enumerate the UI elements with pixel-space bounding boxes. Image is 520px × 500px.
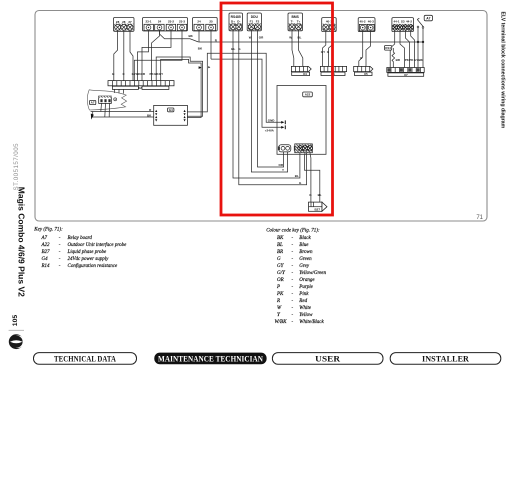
wire 25 R to +24VA (211, 59, 283, 127)
svg-text:Colour code key (Fig. 71):: Colour code key (Fig. 71): (266, 229, 320, 234)
relay board label A7 (424, 15, 432, 20)
strip to harness stubs (114, 89, 116, 93)
wire 44-1 (390, 30, 395, 68)
wire 28 block t2 (123, 30, 125, 80)
svg-text:G4: G4 (169, 108, 173, 112)
svg-text:R14: R14 (385, 46, 391, 50)
relay connector leads (100, 103, 103, 111)
wire 40-2 (359, 31, 363, 67)
svg-text:28: 28 (116, 20, 120, 24)
diagram frame (35, 11, 487, 222)
relay board label A7 (90, 100, 96, 104)
GND arrow into A22 (281, 121, 284, 124)
svg-text:Magis Combo 4/6/9 Plus V2: Magis Combo 4/6/9 Plus V2 (17, 187, 27, 297)
svg-text:BMS: BMS (292, 15, 300, 19)
wire A22 to B27 G (310, 153, 311, 202)
terminal block 28/28/27 (114, 18, 135, 32)
supply wire BK to G4 (93, 112, 154, 118)
svg-text:Outdoor Unit interface probe: Outdoor Unit interface probe (68, 243, 128, 248)
wire 24b (160, 30, 199, 42)
outdoor unit interface A22 (277, 86, 326, 155)
svg-text:INSTALLER: INSTALLER (422, 355, 470, 364)
arrow marker on strip-G4 wire (199, 66, 202, 69)
svg-text:25: 25 (209, 20, 213, 24)
svg-text:S3: S3 (401, 19, 405, 23)
supply wire R to G4 (91, 111, 154, 113)
svg-text:24Vdc power supply: 24Vdc power supply (68, 257, 110, 262)
relay connector (99, 96, 112, 103)
svg-text:GY: GY (414, 58, 418, 62)
terminal block RS485 (229, 13, 243, 31)
wire RS485 D- G (239, 30, 307, 185)
svg-text:BL: BL (298, 35, 302, 39)
A22 main connector (294, 144, 313, 153)
svg-text:23-1: 23-1 (145, 20, 151, 24)
svg-text:44-1: 44-1 (393, 19, 399, 23)
svg-text:23-3: 23-3 (179, 20, 185, 24)
wire 27 block t3 (130, 30, 133, 80)
svg-text:DDU: DDU (251, 15, 259, 19)
svg-text:23-2: 23-2 (168, 20, 174, 24)
svg-text:Blue: Blue (299, 243, 309, 248)
svg-text:Grey: Grey (299, 264, 310, 269)
svg-text:44-2: 44-2 (406, 19, 412, 23)
svg-text:MAINTENANCE TECHNICIAN: MAINTENANCE TECHNICIAN (158, 355, 263, 364)
svg-text:PK: PK (276, 292, 284, 297)
R14 resistor (385, 46, 395, 68)
svg-text:Orange: Orange (299, 278, 315, 283)
separator line above logo (9, 329, 24, 331)
junction dots (417, 41, 419, 43)
wire 40-3 (366, 31, 371, 67)
svg-text:D-: D- (237, 20, 240, 24)
svg-text:White/Black: White/Black (299, 320, 324, 325)
wire A22 to B27 BL (305, 153, 320, 202)
svg-text:BL: BL (318, 193, 322, 197)
svg-text:ELV terminal block connections: ELV terminal block connections wiring di… (500, 12, 506, 129)
arrow marker on GND riser (208, 66, 210, 68)
svg-text:P: P (276, 285, 280, 290)
svg-text:White: White (299, 306, 311, 311)
arrow symbol (91, 114, 94, 120)
svg-text:Red: Red (298, 299, 307, 304)
terminal block BMS (288, 13, 303, 31)
24Vdc power supply G4 (154, 105, 188, 125)
terminal block 44-1/S3/44-2 (392, 18, 414, 32)
+24VA arrow into A22 (281, 126, 284, 129)
brand logo (9, 334, 24, 349)
liquid phase probe B27 (309, 202, 328, 211)
svg-text:R: R (276, 299, 280, 304)
wire BMS T- W (292, 30, 294, 67)
svg-text:F2: F2 (256, 20, 260, 24)
A22 small connector (278, 145, 291, 152)
terminal block 23-1/24/23-2/23-3 (143, 18, 188, 32)
colour code rows (275, 236, 327, 325)
svg-text:Yellow/Green: Yellow/Green (299, 271, 326, 276)
svg-text:Purple: Purple (298, 285, 313, 290)
tab installer (390, 353, 501, 365)
svg-text:Key (Fig. 71):: Key (Fig. 71): (33, 227, 63, 232)
svg-text:28: 28 (122, 20, 126, 24)
svg-text:B27: B27 (315, 207, 321, 211)
terminal block 40-1 (322, 18, 337, 32)
svg-text:B27: B27 (42, 250, 51, 255)
svg-text:Relay board: Relay board (67, 236, 93, 241)
wire BMS T+ BL (299, 30, 303, 67)
connector strip X6 (320, 66, 346, 76)
svg-text:BL: BL (277, 243, 283, 248)
svg-text:BK: BK (277, 236, 284, 241)
svg-text:USER: USER (315, 355, 341, 364)
svg-text:A7: A7 (91, 101, 95, 105)
svg-text:ST.005157/005: ST.005157/005 (13, 143, 20, 191)
svg-text:40-3: 40-3 (368, 19, 374, 23)
svg-text:71: 71 (476, 215, 483, 221)
svg-text:W: W (249, 35, 252, 39)
wire 25 to +24VA rail (210, 30, 212, 59)
svg-text:A7: A7 (41, 236, 48, 241)
relay contact switch (417, 18, 424, 31)
svg-text:Configuration resistance: Configuration resistance (68, 264, 118, 269)
svg-text:D+: D+ (231, 20, 235, 24)
svg-text:GND: GND (268, 119, 276, 123)
connector strip X2 (108, 81, 174, 91)
svg-text:24: 24 (158, 20, 162, 24)
wire 24a (152, 30, 160, 81)
svg-text:GY: GY (321, 50, 325, 54)
svg-text:105: 105 (12, 315, 19, 327)
svg-text:G4: G4 (42, 257, 49, 262)
svg-text:T+: T+ (297, 20, 301, 24)
connector strip X7 (387, 68, 424, 77)
wire strip to G4 b (161, 59, 201, 117)
svg-text:W/BK: W/BK (275, 320, 288, 325)
svg-text:TECHNICAL DATA: TECHNICAL DATA (54, 355, 116, 364)
svg-text:X7: X7 (404, 73, 408, 77)
wire 40-1 right to strip (329, 30, 333, 66)
svg-text:Pink: Pink (298, 292, 309, 297)
svg-text:Liquid phase probe: Liquid phase probe (67, 250, 107, 255)
svg-text:Yellow: Yellow (299, 313, 313, 318)
wire bus branch a (417, 42, 419, 68)
svg-text:OR: OR (277, 278, 284, 283)
screw mark (114, 98, 117, 101)
harness outline (87, 90, 126, 110)
wire 44-S3a (400, 30, 405, 68)
svg-text:X2: X2 (138, 86, 142, 90)
svg-text:RS485: RS485 (231, 15, 241, 19)
svg-text:X5: X5 (364, 72, 368, 76)
svg-text:A22: A22 (41, 243, 51, 248)
wire bus branch b (422, 42, 424, 68)
wire 23-1 (138, 30, 149, 81)
connector strip X5 (354, 66, 373, 76)
svg-text:A22: A22 (305, 93, 311, 97)
G4 output wire BK to GND (187, 53, 282, 122)
wire 23-3 (134, 30, 182, 81)
tab technical data (34, 353, 137, 365)
red highlight rectangle (221, 3, 333, 215)
svg-text:T-: T- (291, 20, 294, 24)
svg-text:BR: BR (277, 250, 283, 255)
svg-text:R14: R14 (41, 264, 51, 269)
svg-text:Y: Y (282, 168, 284, 172)
wire 28 block t1 (114, 30, 118, 80)
svg-text:W: W (289, 35, 292, 39)
tab user (272, 353, 383, 365)
wire strip to G4 a (156, 57, 202, 116)
svg-text:27: 27 (128, 20, 132, 24)
svg-text:BL: BL (231, 47, 235, 51)
wire 44-S3b (405, 30, 409, 68)
tab maintenance technician (154, 353, 266, 365)
key rows (41, 236, 128, 269)
wire DDU F1 W (251, 30, 287, 172)
svg-text:Black: Black (299, 236, 311, 241)
terminal block DDU (247, 13, 261, 31)
svg-text:G/Y: G/Y (277, 271, 286, 276)
wire 44-2 (411, 30, 415, 68)
svg-text:Brown: Brown (299, 250, 313, 255)
terminal block 24/25 (193, 18, 218, 32)
terminal block 40-2/40-3 (358, 18, 375, 32)
svg-text:F1: F1 (250, 20, 254, 24)
svg-text:24: 24 (197, 20, 201, 24)
svg-text:BL: BL (295, 174, 299, 178)
svg-text:A7: A7 (426, 17, 430, 21)
svg-text:40-2: 40-2 (359, 19, 365, 23)
wire RS485 D+ BL (233, 30, 300, 178)
svg-text:+24VA: +24VA (265, 129, 275, 133)
wire DDU F2 OR (258, 30, 284, 167)
wire 40-1 left to strip (323, 30, 326, 66)
connector strip X4 (291, 66, 311, 76)
wire 23-2 (142, 30, 171, 81)
bus wire 24 common (199, 30, 423, 42)
wire from switch to bus (417, 32, 419, 43)
svg-text:G: G (277, 257, 281, 262)
svg-text:X4: X4 (303, 72, 307, 76)
svg-text:Green: Green (299, 257, 312, 262)
svg-text:GY: GY (159, 72, 163, 76)
